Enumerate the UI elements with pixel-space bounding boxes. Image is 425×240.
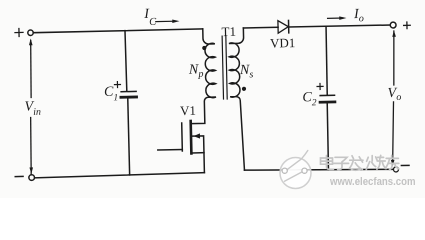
char you bbox=[385, 155, 399, 170]
terminal circle bottom-right bbox=[393, 167, 398, 172]
bottom rail left bbox=[34, 173, 204, 178]
top rail left segment bbox=[34, 29, 203, 33]
minus sign bottom-right bbox=[401, 164, 409, 166]
svg-text:Vo: Vo bbox=[387, 86, 401, 103]
char shao bbox=[366, 155, 386, 169]
svg-text:T1: T1 bbox=[221, 24, 236, 39]
svg-text:Vin: Vin bbox=[24, 99, 41, 118]
plus sign top-right bbox=[404, 24, 411, 26]
transformer secondary winding Ns bbox=[229, 28, 247, 170]
terminal circle top-right bbox=[390, 22, 396, 28]
diode VD1 cathode bar bbox=[288, 20, 290, 32]
Vin arrow lower segment bbox=[30, 117, 32, 173]
svg-text:www.elecfans.com: www.elecfans.com bbox=[329, 176, 415, 188]
svg-text:Io: Io bbox=[353, 7, 364, 25]
svg-text:Np: Np bbox=[188, 62, 204, 80]
svg-text:V1: V1 bbox=[180, 103, 196, 118]
capacitor C1 upper lead bbox=[125, 31, 127, 91]
plus sign top-left bbox=[15, 31, 23, 33]
Vo arrow upper segment bbox=[393, 31, 395, 85]
watermark chinese characters bbox=[321, 155, 399, 170]
minus sign bottom-left bbox=[15, 175, 23, 177]
watermark small circles bbox=[282, 168, 307, 173]
top rail right segment bbox=[289, 25, 391, 27]
terminal circle bottom-left bbox=[29, 175, 35, 181]
capacitor C1 lower lead bbox=[128, 99, 130, 175]
char fa bbox=[349, 156, 363, 170]
MOSFET channel bar bbox=[189, 121, 192, 153]
svg-text:IC: IC bbox=[143, 7, 157, 28]
transformer core bbox=[222, 36, 223, 99]
svg-text:Ns: Ns bbox=[239, 63, 254, 81]
capacitor C1 plates bbox=[121, 90, 136, 92]
plus of C2 bbox=[317, 85, 323, 87]
plus of C1 bbox=[114, 84, 120, 86]
capacitor C2 plates bbox=[320, 94, 334, 96]
capacitor C2 upper lead bbox=[326, 26, 328, 95]
IC arrow bbox=[156, 20, 175, 22]
dot primary bbox=[202, 46, 206, 50]
MOSFET gate lead bbox=[158, 148, 182, 151]
Io arrow bbox=[328, 17, 343, 19]
svg-text:C2: C2 bbox=[302, 90, 317, 109]
capacitor C2 lower lead bbox=[327, 103, 329, 169]
bottom rail right bbox=[244, 167, 393, 173]
char dian bbox=[321, 156, 334, 170]
transformer primary winding Np bbox=[190, 29, 216, 124]
top rail middle segment bbox=[243, 26, 278, 29]
MOSFET source stub bbox=[193, 152, 204, 154]
watermark logo (over rail) bbox=[280, 151, 311, 189]
terminal circle top-left bbox=[28, 30, 34, 36]
Vin arrow upper segment bbox=[30, 40, 32, 97]
char zi bbox=[334, 157, 349, 169]
svg-text:VD1: VD1 bbox=[270, 35, 296, 51]
MOSFET body stub and source vertical bbox=[192, 136, 204, 173]
diode VD1 triangle bbox=[278, 20, 289, 33]
svg-text:C1: C1 bbox=[104, 85, 118, 104]
dot secondary bbox=[242, 87, 246, 91]
MOSFET gate bar bbox=[181, 123, 184, 151]
Vo arrow lower segment bbox=[391, 102, 395, 164]
